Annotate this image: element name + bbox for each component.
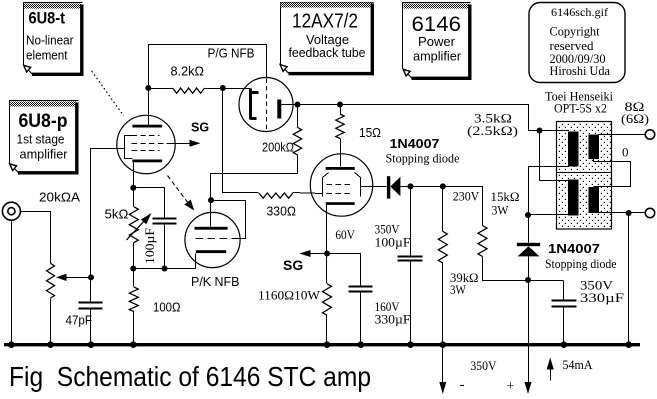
copyright box: [529, 3, 625, 83]
node wiper junction: [88, 274, 94, 280]
node H (6146 cathode): [324, 251, 330, 257]
svg-text:SG: SG: [191, 121, 209, 135]
junction on ground bus x=50.5: [47, 341, 54, 348]
wire primary parallel: [540, 131, 569, 181]
wire top feedback rail: [149, 45, 267, 89]
svg-text:20kΩA: 20kΩA: [39, 191, 81, 205]
svg-text:1N4007: 1N4007: [548, 241, 600, 256]
svg-text:Stopping diode: Stopping diode: [386, 152, 460, 166]
arrow minus terminal: [439, 382, 446, 394]
svg-text:6146sch.gif: 6146sch.gif: [551, 5, 608, 19]
input jack J1: [2, 202, 20, 220]
wire jack to volume pot: [21, 212, 51, 264]
svg-text:element: element: [26, 48, 68, 63]
svg-text:15Ω: 15Ω: [359, 126, 381, 140]
node D (15 ohm / plate): [337, 102, 343, 108]
svg-text:6146: 6146: [412, 13, 462, 36]
wire wiper to 6U8 grid: [91, 149, 125, 278]
potentiometer 20kOhm-A volume: [47, 263, 55, 298]
node C (200k tap): [295, 102, 301, 108]
wire secondary top to 8ohm: [599, 134, 646, 136]
node G (secondary ground): [626, 210, 632, 216]
junction on ground bus x=11.4: [8, 341, 15, 348]
dashed arrow to P/K tube: [168, 176, 189, 203]
capacitor 47pF: [90, 278, 92, 303]
resistor 15kOhm 3W screen feed: [478, 226, 487, 257]
wire secondary to ground bus: [628, 213, 630, 343]
svg-text:(6Ω): (6Ω): [621, 111, 649, 126]
wire 12AX7 to plate rail: [282, 105, 540, 131]
wire 6U8 plate lead: [148, 89, 150, 125]
node E (primary top): [537, 128, 543, 134]
svg-text:-: -: [460, 377, 465, 393]
wire plus terminal: [528, 281, 530, 383]
capacitor 350V 330uF main filter: [563, 281, 565, 301]
svg-text:6U8-t: 6U8-t: [29, 10, 66, 28]
svg-text:No-linear: No-linear: [26, 33, 74, 48]
svg-text:SG: SG: [283, 257, 303, 273]
wire node B to 330: [223, 89, 259, 193]
svg-text:amplifier: amplifier: [20, 147, 69, 162]
tube 12AX7/2 feedback triode U2: [239, 78, 293, 132]
svg-text:8.2kΩ: 8.2kΩ: [171, 65, 205, 79]
resistor 15 Ohm plate stopper: [340, 105, 342, 115]
svg-text:1N4007: 1N4007: [390, 136, 440, 151]
junction on ground bus x=442.8: [440, 341, 447, 348]
svg-text:330µF: 330µF: [580, 290, 624, 305]
wire 6U8 cathode lead: [133, 163, 135, 188]
wire 6146 screen to diode: [361, 186, 387, 188]
tube 6U8-t/p pentode U1: [117, 115, 175, 173]
node 2 (39k bleeder): [440, 183, 446, 189]
junction on ground bus x=327: [324, 341, 331, 348]
node I (P/K plate): [208, 197, 214, 203]
tube P/K NFB triode U3: [185, 212, 240, 267]
note: 12AX7/2: [280, 2, 375, 76]
junction on ground bus x=563.8: [561, 341, 568, 348]
svg-text:1160Ω10W: 1160Ω10W: [258, 288, 321, 303]
capacitor cathode bypass 160V 330uF: [327, 254, 361, 287]
junction on ground bus x=410.5: [407, 341, 414, 348]
svg-text:(2.5kΩ): (2.5kΩ): [467, 123, 518, 138]
wire primary bottom 2: [529, 214, 569, 216]
svg-text:3W: 3W: [450, 282, 467, 297]
capacitor 350V 100uF filter: [410, 187, 412, 257]
svg-text:P/K NFB: P/K NFB: [191, 274, 240, 289]
resistor 8.2kOhm: [149, 88, 173, 90]
tube 6146 power amplifier U4: [310, 154, 372, 216]
wire diode to 230V node: [401, 187, 483, 226]
diode 1N4007 stopping D2: [528, 215, 530, 243]
node F2 (diode2 junction): [525, 277, 531, 283]
svg-text:54mA: 54mA: [563, 357, 594, 372]
svg-text:amplifier: amplifier: [413, 49, 462, 64]
screen grid off-page arrow SG: [170, 143, 191, 145]
note: 6146: [403, 3, 472, 81]
node K2 (5k bottom / 100 ohm): [130, 266, 136, 272]
wire secondary series link: [594, 159, 631, 187]
wire P/K cathode: [134, 254, 196, 269]
resistor 39kOhm 3W bleeder: [442, 187, 444, 232]
arrow 54mA current: [550, 365, 552, 381]
svg-text:Copyright: Copyright: [550, 25, 601, 39]
svg-text:47pF: 47pF: [66, 314, 93, 328]
svg-text:6U8-p: 6U8-p: [19, 111, 68, 132]
svg-text:12AX7/2: 12AX7/2: [292, 10, 358, 33]
svg-text:P/G NFB: P/G NFB: [208, 46, 255, 61]
diode 1N4007 screen stopping D1: [387, 176, 390, 198]
svg-text:200kΩ: 200kΩ: [262, 141, 294, 155]
note: 6U8-p: [9, 101, 79, 175]
svg-text:330µF: 330µF: [375, 312, 411, 327]
svg-text:350V: 350V: [470, 358, 497, 373]
wire primary top: [540, 130, 569, 132]
wire secondary bottom: [599, 212, 646, 214]
svg-text:5kΩ: 5kΩ: [105, 208, 129, 222]
dashed pointer from 6U8-t note to tube: [92, 71, 124, 116]
svg-text:feedback tube: feedback tube: [289, 45, 366, 60]
junction on ground bus x=91: [88, 341, 95, 348]
svg-text:330Ω: 330Ω: [267, 205, 297, 219]
pot 5k wiper arrow: [127, 219, 147, 240]
potentiometer 5kOhm: [133, 188, 135, 207]
svg-text:Stopping diode: Stopping diode: [545, 257, 617, 271]
svg-text:reserved: reserved: [550, 39, 595, 53]
svg-text:1st stage: 1st stage: [17, 132, 65, 147]
svg-text:100µF: 100µF: [142, 228, 157, 264]
svg-text:Fig Schematic of 6146 STC amp: Fig Schematic of 6146 STC amp: [9, 361, 371, 392]
junction on ground bus x=360.8: [358, 341, 365, 348]
svg-text:60V: 60V: [335, 227, 355, 242]
resistor 330 Ohm grid stopper: [259, 193, 293, 198]
wire jack ground: [11, 220, 13, 345]
svg-text:3W: 3W: [492, 203, 510, 218]
node F (primary bottom): [525, 212, 531, 218]
node 1 (100uF filter): [408, 183, 414, 189]
terminal 0 output: [645, 208, 654, 217]
node A (plate of 6U8 / 8.2k): [145, 85, 151, 91]
svg-text:230V: 230V: [453, 189, 480, 204]
svg-text:Hiroshi Uda: Hiroshi Uda: [550, 64, 611, 78]
ground bus: [4, 343, 640, 346]
junction on ground bus x=628.7: [625, 341, 632, 348]
capacitor 100uF cathode bypass: [134, 188, 165, 219]
svg-text:100µF: 100µF: [375, 235, 411, 250]
junction on ground bus x=133.3: [130, 341, 137, 348]
svg-text:+: +: [507, 379, 515, 394]
pot 20k wiper arrow: [67, 277, 91, 279]
resistor 200kOhm: [297, 105, 299, 128]
resistor 100 Ohm: [133, 269, 135, 287]
terminal 8 ohm output: [645, 130, 654, 139]
svg-text:0: 0: [622, 145, 629, 160]
svg-text:OPT-5S x2: OPT-5S x2: [554, 102, 607, 116]
transformer Toei Henseiki OPT-5S x2: [557, 122, 612, 230]
wire 6146 cathode lead: [326, 205, 328, 254]
wire primary bottom 1: [529, 167, 569, 215]
node J (100uF bottom): [162, 266, 168, 272]
note: 6U8-t: [23, 3, 84, 77]
svg-text:Power: Power: [418, 34, 456, 49]
node K (6U8 cathode): [130, 185, 136, 191]
node B (8.2k / 12AX7 / 330 riser): [220, 85, 226, 91]
wire P/K plate-grid tie: [211, 201, 246, 239]
SG off-page arrow at 6146 cathode: [311, 253, 327, 255]
resistor 1160 Ohm 10W cathode: [326, 254, 328, 284]
svg-text:100Ω: 100Ω: [153, 301, 181, 315]
